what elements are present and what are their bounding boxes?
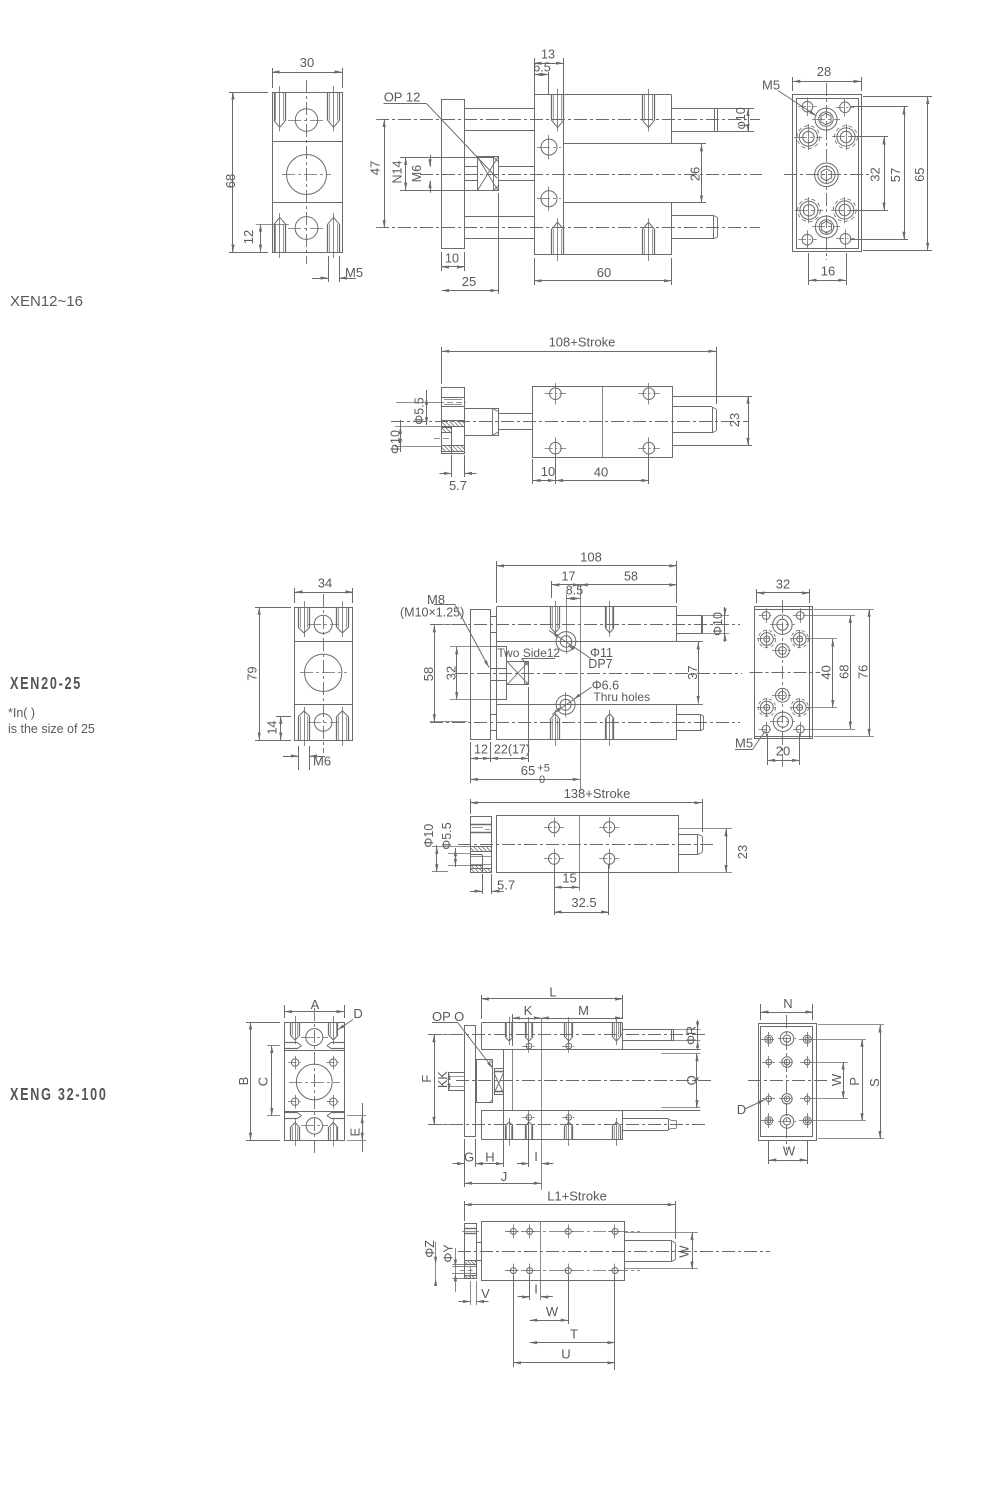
dim 108+Stroke [441,347,443,384]
view3M bottom rod right [623,1118,668,1120]
svg-text:30: 30 [300,55,314,70]
view2L bore circle [305,654,342,691]
view3L side thread bottom-left [285,1112,298,1114]
view1R counterbore r2 left [799,128,817,146]
view3L bore circle [296,1064,332,1100]
view3M pin mark top-1 [526,1043,532,1049]
view2R lower hole [776,688,790,702]
view1B screw br [643,442,655,454]
svg-text:(M10×1.25): (M10×1.25) [400,606,464,620]
view1R counterbore r2 right [837,128,855,146]
view2M hole phi6.6 circle [556,695,575,714]
svg-text:V: V [481,1286,490,1301]
view1L thread bottom-left [274,224,276,252]
view3M thread bottom-2 [525,1126,527,1140]
view1R plate inner edge [797,99,859,249]
view3B body outline [482,1222,625,1281]
view2M centerline bottom rod [430,722,740,724]
dim U [513,1276,515,1367]
view3R hole r2 center [782,1057,792,1067]
dim 138+Stroke [470,799,472,814]
view1R bottom hex socket [815,216,837,238]
dim 8.5 [566,594,568,629]
view3B rod right [625,1240,672,1242]
view3M flange plate [465,1026,476,1137]
view1B flange hatch top [442,420,465,422]
view1B flange hatch bottom [442,445,465,447]
view3R hole r4 center [780,1115,794,1129]
view3M thread bottom-4 [612,1126,614,1140]
view1L top hole circle [295,109,317,131]
view3L side thread top-right [332,1042,345,1044]
view1B rod right [672,406,712,408]
view1L bottom hole circle [295,217,318,240]
view3B flange hatch bottom [464,1275,476,1277]
svg-text:16: 16 [821,264,835,279]
dim W rod view3B [625,1232,698,1234]
svg-text:32: 32 [868,167,883,181]
view1R corner hole br [840,234,851,245]
view3R vertical centerline [786,1015,788,1150]
view3R hole r3 center [782,1094,792,1104]
view3R plate inner edge [761,1027,813,1137]
view1L thread top-right [327,92,329,121]
svg-text:F: F [419,1075,434,1083]
view3M body bottom plate [481,1110,483,1139]
svg-text:N: N [783,996,792,1011]
view3L thread bottom-right [328,1127,330,1140]
view3M top rod right [623,1029,674,1031]
dim phiR [674,1029,701,1031]
svg-text:6.5: 6.5 [533,61,550,75]
view2R plate inner edges [809,607,811,739]
svg-text:20: 20 [776,743,790,758]
view1M piston rod M6 thread [465,166,478,168]
view1R main axis centerline [784,174,869,176]
dim 32.5 [608,864,610,915]
view3L thread top-left [290,1022,292,1036]
view3M slide left face [503,1050,505,1111]
view3B flange hatch top [464,1260,476,1262]
svg-text:Φ10: Φ10 [422,824,436,848]
svg-text:XEN12~16: XEN12~16 [10,293,83,310]
view3M thread top-1 [505,1023,507,1037]
view3L body outline [285,1023,345,1141]
svg-text:+5: +5 [537,763,550,775]
dim 23 view1B [672,396,752,398]
dim B [246,1022,280,1024]
dim W view3B [568,1276,570,1324]
svg-text:E: E [348,1128,363,1137]
view3R hole r1 left [765,1035,773,1043]
dim S [818,1024,884,1026]
svg-text:76: 76 [855,665,870,679]
dim 13 [534,58,536,95]
svg-text:34: 34 [318,576,332,591]
view2M rod nut [507,662,529,685]
svg-text:108+Stroke: 108+Stroke [549,335,616,350]
svg-text:32.5: 32.5 [571,895,596,910]
svg-text:23: 23 [735,845,750,859]
view2L body outline [295,608,353,741]
view3B flange thread [464,1228,476,1230]
dim 76 view2R [814,609,874,611]
view1M top guide rod [465,108,535,110]
dim L1+Stroke [464,1201,466,1221]
view1M rod to body [498,166,534,168]
view1R counterbore r4 left [800,201,818,219]
view2M centerline top rod [430,624,740,626]
svg-text:U: U [561,1346,570,1361]
view1M port circle top [541,139,557,155]
dim 22(17) [528,687,530,762]
view1M centerline bottom rod [376,227,760,229]
svg-text:17: 17 [562,570,576,584]
dim 47 [384,120,386,228]
view1B flange step [451,426,453,453]
view2M bottom rod segment [491,714,497,716]
svg-text:8.5: 8.5 [566,584,583,598]
svg-text:14: 14 [266,721,280,735]
view2M reference line 65 [580,585,582,791]
view2M thread bottom-2 [605,719,607,740]
dim 14 [276,716,291,718]
dim 58 left view2M [430,624,467,626]
view2M top rod segment [491,616,497,618]
view3R hole r4 left [765,1117,773,1125]
view1L thread top-left [274,92,276,121]
svg-text:K: K [524,1003,533,1018]
view3M thread top-4 [612,1023,614,1037]
dim 68 [229,92,268,94]
view3M KK rod [449,1073,465,1091]
svg-text:C: C [255,1077,270,1086]
view3M pin mark bottom-2 [566,1115,572,1121]
view1M centerline top rod [376,119,760,121]
dim phi10 view2M [703,615,729,617]
view3R main axis centerline [748,1080,830,1082]
view2R plate outline [755,607,813,739]
dim 12 [256,224,289,226]
dim phi10 rod [718,108,754,110]
view3L vertical centerline [314,1008,316,1154]
view2B screw tl [549,822,560,833]
dim L [481,995,483,1019]
view2R upper hole [776,644,790,658]
view1R vertical centerline [826,83,828,260]
dim H [503,1097,505,1167]
dim W view3R [812,1062,848,1064]
view1B piston rod [498,413,533,415]
dim M6 label view2L [298,746,300,770]
svg-text:15: 15 [562,871,576,886]
view1M body plate line [563,95,565,255]
svg-text:5.7: 5.7 [449,478,467,493]
view3M reference line K [541,1018,543,1190]
view1M bottom rod right [672,215,714,217]
svg-text:Thru holes: Thru holes [593,690,650,704]
svg-text:T: T [570,1327,578,1342]
view1L section lines [272,141,342,143]
view2R counterbore r4 left [760,701,773,714]
svg-text:ΦR: ΦR [685,1026,699,1045]
view3B flange outline [465,1224,477,1279]
svg-text:W: W [546,1304,559,1319]
view2B main centerline [458,844,716,846]
view3M body right edge [622,1023,624,1050]
svg-text:23: 23 [727,413,742,427]
svg-text:Q: Q [684,1075,699,1085]
view1M rod nut [478,157,499,191]
view3R hole r3 left [766,1096,772,1102]
svg-text:22(17): 22(17) [494,743,530,757]
dim I view3M [528,1122,530,1167]
view1L body outline [273,93,343,253]
svg-text:M5: M5 [762,78,780,93]
view2L top hole circle [314,615,332,633]
view3L thread top-right [328,1022,330,1036]
view2M hole phi11 circle [556,632,576,652]
svg-text:*In( ): *In( ) [8,706,35,720]
svg-text:XEN20-25: XEN20-25 [10,674,82,694]
svg-text:OP 12: OP 12 [384,90,421,105]
dim 34 [294,588,296,603]
dim 28 [792,77,794,91]
svg-text:P: P [847,1077,862,1086]
view1B body center mark [602,386,604,457]
dim 79 [255,607,291,609]
view3R hole r1 center [780,1032,794,1046]
view2B flange hatch 1 [470,846,492,848]
dim A [284,1005,286,1018]
svg-text:37: 37 [685,665,700,679]
view3B screws bottom row [510,1268,516,1274]
svg-text:68: 68 [837,665,852,679]
view2M top rod right [677,615,703,617]
view1B screw tr [643,388,655,400]
view2R corner hole tl [762,612,770,620]
svg-text:L: L [549,985,556,1000]
svg-text:D: D [737,1102,746,1117]
svg-text:57: 57 [888,168,903,182]
view1M thread top-2 [642,95,644,121]
view1R corner hole tr [840,102,851,113]
svg-text:M5: M5 [345,265,363,280]
svg-text:D: D [353,1006,362,1021]
view2B flange thread [470,824,492,826]
view2M thread top-1 [550,607,552,628]
dim 15 [554,864,556,915]
dim 20 view2R [767,734,769,765]
dim phi10 view1B [395,426,442,428]
view3M centerline top rod [428,1034,705,1036]
svg-text:26: 26 [688,167,703,181]
view2B flange hatch 2 [470,865,482,867]
view2M flange plate [471,610,491,740]
view2B screw br [604,853,615,864]
view3M thread bottom-3 [564,1126,566,1140]
view3M rod nut [495,1069,504,1095]
svg-text:A: A [311,997,320,1012]
svg-text:DP7: DP7 [588,657,612,671]
view1B main centerline [391,421,748,423]
svg-text:0: 0 [539,774,545,786]
dim 23 view2B [678,828,732,830]
view1M thread top-1 [551,95,553,121]
dim M6 [430,155,432,167]
svg-text:58: 58 [624,570,638,584]
view2R counterbore r2 left [760,633,773,646]
dim 5.7 view2B [482,874,484,894]
svg-text:10: 10 [541,464,555,479]
svg-text:KK: KK [436,1071,450,1088]
view3M slide slot lines [481,1049,700,1051]
view2M slide slot lines [497,641,703,643]
dim 25 [498,193,500,294]
view3M boss [477,1060,493,1103]
view2B rod right [678,834,697,836]
view3L screw bl [291,1098,298,1105]
svg-text:28: 28 [817,64,831,79]
dim 32 view2M [450,646,490,648]
dim E [347,1115,366,1117]
svg-text:12: 12 [474,743,488,757]
view2R corner hole br [796,725,804,733]
svg-text:M6: M6 [313,754,331,769]
view1L thread bottom-right [327,224,329,252]
view1M thread bottom-1 [551,229,553,255]
dim 10 plate [441,252,443,271]
dim 58 top [580,584,677,586]
view1M slide slot lines [564,143,706,145]
svg-text:13: 13 [541,48,555,62]
svg-text:32: 32 [776,577,790,592]
dim 68 view2R [804,615,855,617]
dim 32 right [850,136,888,138]
view3L section lines [285,1050,345,1052]
svg-text:58: 58 [421,667,436,681]
view1B flange outline [442,388,465,454]
svg-text:G: G [464,1150,474,1165]
view1B screw bl [550,442,562,454]
view2L thread top-left [298,607,300,627]
svg-text:47: 47 [368,161,383,175]
view3B rod gap [477,1242,482,1244]
svg-text:N14: N14 [391,160,405,183]
view2B body outline [497,816,679,873]
view2R counterbore r4 right [793,701,806,714]
view3R plate outline [759,1024,817,1141]
view1R mid hex socket [815,163,839,187]
svg-text:Φ5.5: Φ5.5 [440,822,454,849]
svg-text:138+Stroke: 138+Stroke [564,786,631,801]
view1L vertical centerline [306,80,308,264]
dim P [812,1039,866,1041]
dim Q [696,1054,698,1108]
svg-text:L1+Stroke: L1+Stroke [547,1188,607,1203]
view2L vertical centerline [323,594,325,753]
view1R top hex socket [815,108,837,130]
dim 17 [551,581,553,598]
view1B body outline [533,387,673,458]
dim 10 view1B [532,459,534,484]
dim 37 [698,642,700,704]
view3R hole r1 right [803,1035,811,1043]
dim F [428,1034,460,1036]
view1M centerline main axis [420,174,762,176]
svg-text:65: 65 [912,167,927,181]
view3M thread bottom-1 [505,1126,507,1140]
dim 40 view1B [648,455,650,484]
svg-text:40: 40 [819,665,834,679]
dim 57 [851,106,908,108]
dim 108 [496,561,498,603]
view2B flange hole lines [470,856,492,858]
view1M body outline [534,94,672,96]
dim W bottom view3R [768,1141,770,1164]
svg-text:10: 10 [445,252,459,266]
view2M thread bottom-1 [550,719,552,740]
svg-text:60: 60 [597,265,611,280]
view1B flange lower centerline [434,438,452,440]
dim G [464,1139,466,1187]
svg-text:M5: M5 [735,736,753,751]
dim 60 [534,258,536,285]
view3L thread bottom-left [290,1127,292,1140]
view3L screw tr [330,1059,337,1066]
view3M body top plate [481,1022,622,1024]
view2R corner hole tr [796,612,804,620]
svg-text:W: W [677,1245,692,1258]
view2R corner hole bl [762,725,770,733]
dim 6.5 [548,72,550,95]
view2M bottom rod right [677,714,700,716]
svg-text:Φ5.5: Φ5.5 [413,397,427,424]
view2B reference line [579,816,581,891]
view1B screw tl [550,388,562,400]
view3R hole r3 right [804,1096,810,1102]
view3B flange hole lines [464,1266,476,1268]
view2M boss [491,646,508,648]
view1M flange plate [442,100,465,249]
view3M thread top-2 [525,1023,527,1037]
dim 5.7 view1B [451,455,453,477]
view2R vertical centerline [782,600,784,768]
svg-text:I: I [534,1282,538,1297]
svg-text:ΦY: ΦY [441,1244,455,1263]
view3B reference line [540,1221,542,1300]
svg-text:H: H [485,1150,494,1165]
view3M pin mark bottom-1 [526,1115,532,1121]
dim 12 view2M [470,742,472,762]
dim M [541,1018,622,1020]
svg-text:108: 108 [580,550,602,565]
view3L side thread bottom-right [332,1112,345,1114]
view2M thread top-2 [605,607,607,628]
view3M thread top-3 [564,1023,566,1037]
dim phi5.5 view1B [426,390,428,425]
svg-text:I: I [534,1149,538,1164]
view3R hole r2 left [766,1059,772,1065]
view2R main axis centerline [750,672,821,674]
view1M port circle bottom [541,191,557,207]
view2B screw bl [549,853,560,864]
view1M bottom guide rod [465,216,535,218]
view2L thread bottom-right [336,716,338,740]
view3R hole r2 right [804,1059,810,1065]
svg-text:XENG 32-100: XENG 32-100 [10,1085,108,1105]
dim 65 +5 0 [470,742,472,783]
